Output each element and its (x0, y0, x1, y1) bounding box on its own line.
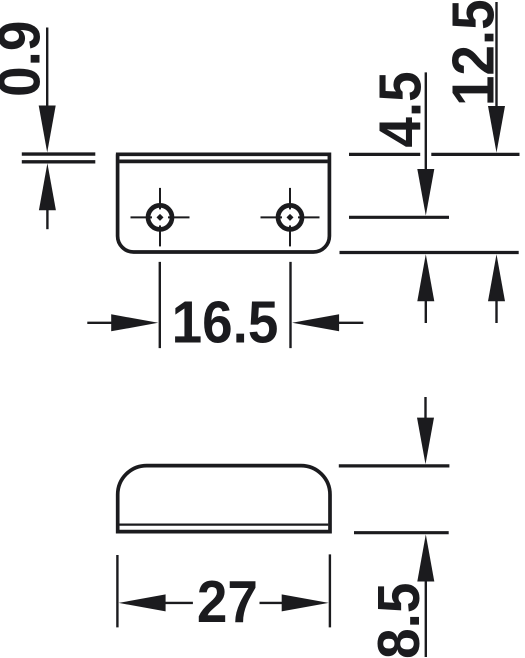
12.5 dim line stem (495, 2, 497, 108)
0.9 dim line upper stem (46, 28, 48, 108)
right ext line middle (hole center level) (349, 216, 449, 219)
16.5 right arrow stem (338, 322, 363, 324)
top view: part outline (116, 154, 330, 252)
16.5 left arrow stem (87, 322, 112, 324)
svg-text:27: 27 (197, 569, 258, 635)
4.5 up arrowhead below bottom line (417, 254, 434, 301)
svg-text:12.5: 12.5 (441, 0, 507, 106)
0.9 down arrowhead (39, 106, 56, 153)
16.5 ext line right (289, 262, 291, 348)
27 ext line right (329, 554, 331, 627)
hole right ring (278, 205, 302, 229)
side view: inner bottom line (119, 523, 328, 525)
0.9 extension line lower (22, 160, 96, 163)
right ext line top (part top edge level) (349, 153, 420, 156)
27 right stem (260, 602, 291, 604)
8.5 up arrowhead (417, 534, 434, 581)
16.5 ext line left (159, 262, 161, 348)
8.5 down arrowhead (417, 418, 434, 465)
8.5 bottom ext line (354, 531, 449, 534)
4.5 down arrowhead (417, 169, 434, 216)
side view: part outline (118, 466, 330, 532)
8.5 top ext line (339, 464, 450, 467)
0.9 dim line lower stem (46, 209, 48, 229)
8.5 down arrow stem (424, 397, 426, 419)
12.5 down arrowhead (488, 106, 505, 153)
12.5 up arrow stem (495, 300, 497, 323)
svg-text:16.5: 16.5 (172, 290, 279, 356)
hole left center dot (157, 214, 164, 221)
4.5 up arrow stem (425, 300, 427, 323)
svg-text:4.5: 4.5 (367, 71, 433, 147)
12.5 up arrowhead below bottom line (488, 254, 505, 301)
8.5 up arrow stem (425, 580, 427, 657)
right ext line bottom (part bottom level) (340, 251, 519, 254)
16.5 left arrowhead (111, 314, 158, 331)
hole left centerlines (131, 188, 190, 247)
27 left stem (164, 602, 193, 604)
hole right centerlines (261, 188, 320, 247)
0.9 up arrowhead (39, 163, 56, 210)
hole right center dot (287, 214, 294, 221)
svg-text:8.5: 8.5 (366, 583, 432, 658)
top view: inner top edge line (119, 160, 327, 164)
hole left ring (148, 205, 172, 229)
16.5 right arrowhead (292, 314, 339, 331)
27 ext line left (116, 555, 118, 627)
4.5 dim line stem (425, 72, 427, 171)
svg-text:0.9: 0.9 (0, 21, 53, 97)
27 right arrowhead (points right) (282, 594, 329, 611)
27 left arrowhead (points left) (119, 594, 166, 611)
0.9 extension line upper (22, 152, 96, 155)
